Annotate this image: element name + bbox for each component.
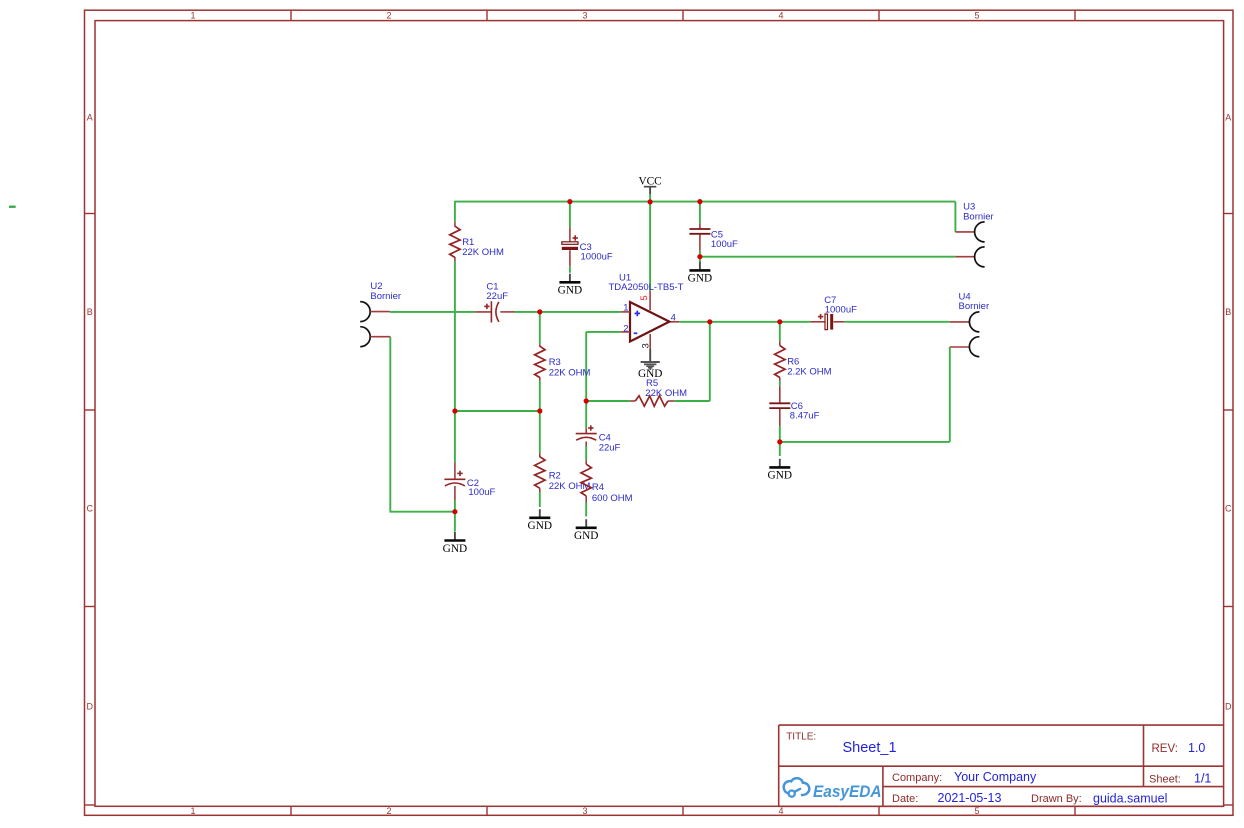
svg-text:100uF: 100uF [711,239,738,250]
svg-text:D: D [1225,702,1232,712]
svg-text:R2: R2 [549,471,561,482]
svg-text:GND: GND [443,543,467,555]
svg-text:R4: R4 [592,482,604,493]
svg-text:1000uF: 1000uF [581,252,613,263]
svg-text:1: 1 [190,806,195,816]
svg-text:R3: R3 [549,357,561,368]
svg-text:GND: GND [574,530,598,542]
svg-text:Company:: Company: [892,772,942,784]
svg-text:22K OHM: 22K OHM [645,388,687,399]
svg-text:2021-05-13: 2021-05-13 [938,791,1002,805]
svg-text:22uF: 22uF [486,291,508,302]
svg-text:GND: GND [558,285,582,297]
svg-text:TDA2050L-TB5-T: TDA2050L-TB5-T [609,282,684,293]
svg-text:GND: GND [638,368,662,380]
svg-text:B: B [1225,307,1231,317]
svg-text:A: A [87,112,93,122]
svg-text:4: 4 [778,11,783,21]
svg-text:Sheet:: Sheet: [1149,774,1181,786]
svg-text:GND: GND [768,470,792,482]
svg-text:D: D [86,702,93,712]
svg-text:Your Company: Your Company [954,770,1037,784]
svg-text:GND: GND [528,520,552,532]
svg-text:GND: GND [688,273,712,285]
svg-text:5: 5 [974,806,979,816]
svg-text:5: 5 [639,295,650,300]
svg-text:3: 3 [640,343,651,348]
svg-text:2: 2 [623,323,628,334]
svg-text:22K OHM: 22K OHM [462,247,504,258]
svg-text:4: 4 [778,806,783,816]
svg-text:2: 2 [386,806,391,816]
svg-text:8.47uF: 8.47uF [790,411,820,422]
svg-text:VCC: VCC [638,175,661,187]
svg-text:3: 3 [582,806,587,816]
svg-text:3: 3 [582,11,587,21]
svg-text:Bornier: Bornier [963,212,994,223]
svg-text:Drawn By:: Drawn By: [1031,793,1082,805]
svg-text:22uF: 22uF [599,442,621,453]
svg-text:B: B [87,307,93,317]
svg-text:Sheet_1: Sheet_1 [843,740,897,756]
svg-text:Bornier: Bornier [959,301,990,312]
svg-text:4: 4 [671,312,676,323]
svg-text:1.0: 1.0 [1188,741,1205,755]
svg-text:2.2K OHM: 2.2K OHM [787,367,831,378]
svg-text:A: A [1225,112,1231,122]
svg-text:1000uF: 1000uF [825,304,857,315]
svg-text:1: 1 [623,303,628,314]
svg-text:2: 2 [386,11,391,21]
svg-text:600 OHM: 600 OHM [592,493,633,504]
svg-text:C: C [86,504,93,514]
svg-text:Date:: Date: [892,793,918,805]
svg-text:EasyEDA: EasyEDA [813,783,882,801]
svg-text:REV:: REV: [1152,743,1178,755]
svg-text:5: 5 [974,11,979,21]
svg-text:22K OHM: 22K OHM [549,367,591,378]
svg-text:100uF: 100uF [468,487,495,498]
svg-text:Bornier: Bornier [370,291,401,302]
svg-text:C: C [1225,504,1232,514]
svg-text:1/1: 1/1 [1194,772,1211,786]
svg-text:1: 1 [190,11,195,21]
svg-text:guida.samuel: guida.samuel [1093,791,1167,805]
svg-text:TITLE:: TITLE: [786,732,816,743]
